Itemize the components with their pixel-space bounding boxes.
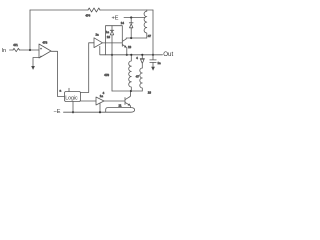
svg-text:474: 474 — [86, 14, 91, 18]
svg-text:Out: Out — [163, 51, 173, 58]
label Q1 — [119, 103, 122, 107]
svg-text:13: 13 — [128, 45, 132, 49]
wire U3 output to Q2 base — [103, 42, 123, 44]
wire U1 inverting input to ground — [33, 58, 39, 67]
wire U4 output to Q1 base — [104, 100, 125, 102]
wire Logic bottom to -E rail — [72, 102, 74, 113]
transistor Q1 — [125, 97, 130, 105]
pin Q2 emitter arrow — [124, 45, 127, 47]
wire Q1 collector up — [129, 91, 132, 96]
wire -E rail y=112.2 — [64, 108, 135, 113]
wire Q2 collector up to node 38 — [126, 37, 147, 40]
wire Logic top stub — [68, 88, 70, 91]
label R5 — [104, 73, 109, 77]
wire Q2 emitter to rail — [126, 48, 128, 55]
svg-text:470: 470 — [104, 73, 109, 77]
svg-text:1a: 1a — [158, 61, 162, 65]
label D3 — [106, 30, 110, 34]
svg-text:a: a — [60, 89, 62, 93]
svg-text:1a: 1a — [96, 33, 100, 37]
svg-text:1a: 1a — [106, 30, 110, 34]
capacitor C1 — [150, 55, 156, 67]
wire top-right corner down to out rail — [152, 10, 154, 55]
resistor R1 (input) — [13, 48, 20, 51]
label U4 — [100, 94, 104, 98]
diode D3 (in box) — [110, 26, 114, 55]
wire +E y=17.5 — [124, 17, 145, 19]
svg-text:+E: +E — [112, 16, 119, 22]
svg-text:4: 4 — [103, 91, 105, 95]
svg-text:47: 47 — [136, 75, 140, 79]
label U3 — [96, 33, 100, 37]
wire chain x=112 rail to tap — [111, 55, 113, 91]
op-amp U4 (lower buffer) — [96, 97, 104, 105]
label R1 value — [13, 43, 18, 47]
diode D2 — [140, 55, 144, 68]
svg-text:4: 4 — [136, 56, 138, 60]
label D1 — [121, 21, 125, 25]
label D2 — [136, 56, 138, 60]
label node b — [103, 91, 105, 95]
wire U3 input riser from Logic top — [81, 43, 95, 93]
wire U1 output down to Logic — [51, 51, 65, 96]
node transformer center tap — [130, 90, 132, 92]
label C1 — [158, 61, 162, 65]
diode D1 — [129, 18, 133, 39]
wire input y=50 — [10, 49, 40, 51]
label W2 bottom — [148, 91, 152, 95]
wire center tap y=91 — [112, 90, 142, 92]
wire driver cell box — [106, 26, 123, 55]
label node a — [60, 89, 62, 93]
node W1 rail junction — [130, 54, 132, 56]
node D2 rail junction — [141, 54, 143, 56]
node +E label — [112, 16, 119, 22]
label Q2 — [128, 45, 132, 49]
transformer winding W1 — [129, 55, 132, 91]
node In label — [2, 48, 7, 54]
svg-text:11: 11 — [119, 103, 122, 107]
op-amp U3 (mid buffer) — [94, 38, 103, 48]
svg-text:18: 18 — [107, 35, 111, 39]
label U3b — [107, 35, 111, 39]
wire U4 bottom to -E rail — [99, 103, 101, 112]
transistor Q2 — [122, 39, 126, 47]
node 38 junction — [130, 37, 132, 39]
resistor R2 (top feedback) — [88, 8, 100, 12]
svg-text:473: 473 — [43, 41, 48, 45]
node input junction — [29, 49, 31, 51]
ground (arrow) under U1 — [31, 66, 35, 70]
svg-text:14: 14 — [121, 21, 125, 25]
svg-text:18: 18 — [148, 91, 152, 95]
label transformer — [136, 75, 140, 79]
wire Q1 emitter to -E rail — [130, 106, 132, 108]
svg-text:Logic: Logic — [65, 96, 78, 102]
ground (arrow) under C1 — [151, 67, 155, 71]
wire Logic out to buffer U4 — [81, 100, 97, 102]
label R2 value — [86, 14, 91, 18]
op-amp U1 — [39, 44, 51, 58]
wire left vertical feedback to input node — [29, 10, 31, 50]
node Out label — [163, 51, 173, 58]
label Logic — [65, 96, 78, 102]
node right rail junction — [152, 54, 154, 56]
node U4/-E junction — [99, 111, 101, 113]
pin + mark U1 — [40, 48, 42, 50]
node +E junction — [130, 16, 132, 18]
node Logic/-E junction — [72, 111, 74, 113]
svg-text:−E: −E — [54, 109, 61, 115]
svg-text:In: In — [2, 48, 7, 54]
label L1 — [148, 34, 152, 38]
svg-text:47: 47 — [148, 34, 152, 38]
pin Q1 emitter arrow — [128, 103, 131, 105]
node Q2 emitter rail junction — [126, 54, 128, 56]
node -E label — [54, 109, 61, 115]
wire out rail y=54.8 — [100, 46, 163, 55]
transformer winding W2 — [140, 68, 143, 91]
pin - mark U1 — [40, 55, 42, 57]
label U1 — [43, 41, 48, 45]
svg-text:471: 471 — [13, 43, 18, 47]
node D3 rail junction — [111, 54, 113, 56]
inductor L1 — [144, 10, 147, 38]
Logic box U2 — [65, 92, 81, 102]
wire top feedback y=10 — [30, 9, 153, 11]
